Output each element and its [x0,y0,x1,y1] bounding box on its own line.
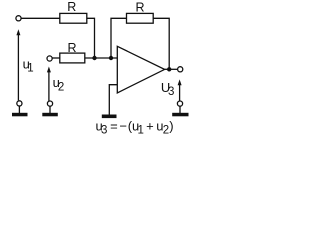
op-amp non-inverting input wire to ground [109,85,117,115]
wire from u1 terminal to resistor R1 [21,17,60,19]
feedback wire up from node B to resistor R3 [111,18,127,58]
wire from R1 to node A (down to inverting input) [87,18,95,58]
output wire from op-amp apex to output terminal [165,68,178,70]
voltage arrow U3 [178,79,182,100]
ground bar under u1 [12,113,28,117]
ground stem under U3 [179,107,181,114]
output terminal u3 [178,67,183,72]
formula u3 = -(u1+u2) [96,118,174,136]
ground stem under u1 [18,106,20,113]
wire from R2 to op-amp inverting input [85,57,117,59]
resistor R1 [60,0,87,23]
svg-text:−: − [119,118,127,133]
voltage arrow u1 [16,29,20,100]
junction node A [92,56,96,60]
ground bar under u2 [42,113,58,117]
svg-text:): ) [169,118,173,133]
svg-text:3: 3 [101,125,107,136]
svg-text:2: 2 [163,125,169,136]
svg-text:+: + [146,118,154,133]
ground terminal circle under u1 [17,101,22,106]
node u2 input terminal [47,56,52,61]
svg-text:R: R [135,0,144,14]
svg-text:R: R [67,41,76,55]
ground terminal circle under U3 output [177,101,182,106]
resistor R2 [60,41,85,63]
ground stem under u2 [49,107,51,114]
junction node B (feedback tap) [109,56,113,60]
feedback wire from R3 down to output node [153,18,169,69]
node u1 input terminal [16,16,21,21]
op-amp U1 triangle [117,46,164,93]
voltage arrow u2 [47,67,51,102]
svg-text:R: R [67,0,76,14]
ground terminal circle under u2 [47,101,52,106]
ground bar under U3 [172,113,188,117]
svg-text:1: 1 [138,125,144,136]
svg-text:=: = [110,118,118,133]
resistor R3 (feedback) [127,0,154,23]
junction node at output / feedback [167,67,171,71]
ground under op-amp + input [102,115,117,119]
wire from u2 terminal to resistor R2 [53,57,61,59]
